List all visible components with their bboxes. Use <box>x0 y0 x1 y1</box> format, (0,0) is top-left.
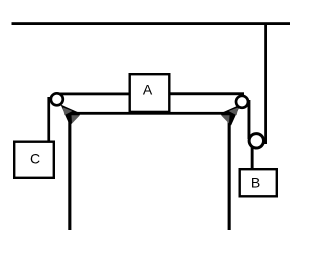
block A <box>130 74 170 112</box>
table top <box>68 112 231 115</box>
block B <box>240 169 277 196</box>
svg-text:A: A <box>143 81 153 97</box>
pulley right <box>236 96 248 108</box>
wire ceiling-to-movable-pulley <box>264 24 267 144</box>
bracket right upper-gray <box>229 107 239 115</box>
wire movable-pulley-to-B <box>251 144 254 170</box>
wire A-to-right-pulley <box>169 92 244 95</box>
bracket right lower-gray <box>221 115 230 123</box>
bracket left lower-gray <box>72 115 81 123</box>
block C <box>14 142 54 178</box>
wire left-pulley-to-C <box>47 97 50 142</box>
bracket right outer <box>220 105 241 126</box>
ceiling <box>12 22 291 25</box>
wire right-pulley-down <box>248 100 251 139</box>
pulley left <box>51 93 63 105</box>
table left leg <box>68 113 71 230</box>
svg-text:B: B <box>251 174 260 190</box>
table right leg <box>228 113 231 230</box>
wire A-to-left-pulley <box>55 93 130 96</box>
bracket left outer <box>61 105 82 126</box>
svg-text:C: C <box>30 150 40 166</box>
pulley movable <box>249 134 263 148</box>
bracket left upper-gray <box>63 107 73 115</box>
